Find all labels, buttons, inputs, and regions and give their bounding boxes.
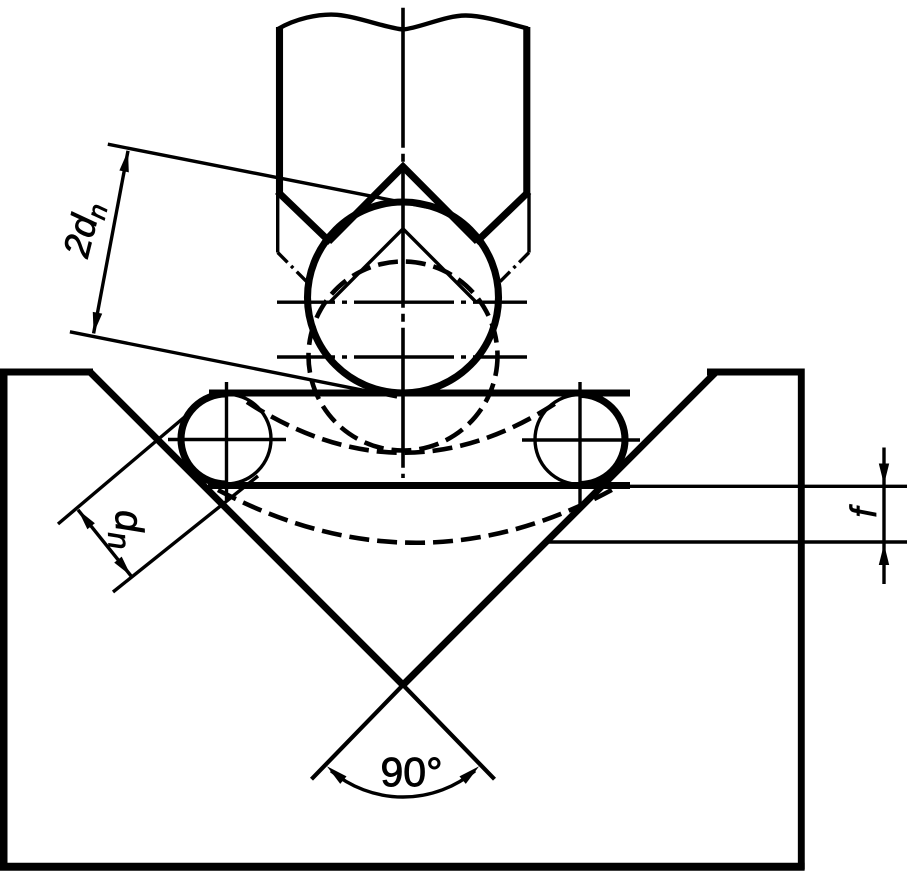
punch left hidden side xyxy=(276,194,279,253)
former lower position xyxy=(309,262,498,451)
bent specimen top surface xyxy=(247,402,556,453)
dimension dn upper arrowhead xyxy=(74,507,95,529)
punch body left side xyxy=(276,27,283,194)
angle dimension arc xyxy=(331,771,475,797)
right roller body xyxy=(535,395,625,485)
dimension 2dn upper arrowhead xyxy=(119,150,132,172)
dimension dn lower extension line xyxy=(113,476,258,592)
dimension f upper arrowhead xyxy=(879,464,889,485)
dimension f lower extension line xyxy=(546,540,907,543)
punch right hidden chamfer xyxy=(499,253,529,284)
former upper position xyxy=(308,202,499,393)
left roller horizontal centerline xyxy=(168,438,286,441)
left roller vertical centerline xyxy=(225,382,228,500)
dimension 2dn upper extension line xyxy=(108,144,438,209)
punch V-groove near edge xyxy=(330,229,476,302)
V-block top left edge xyxy=(0,368,93,375)
bent specimen bottom surface xyxy=(218,487,617,543)
punch V-groove far edge xyxy=(329,167,478,242)
V-block right side xyxy=(798,369,805,870)
svg-text:dn: dn xyxy=(101,509,151,550)
punch left hidden chamfer xyxy=(278,253,308,284)
left roller outer arc xyxy=(181,394,226,484)
svg-text:90°: 90° xyxy=(380,749,442,795)
dimension 2dn lower arrowhead xyxy=(89,312,102,334)
punch left chamfer xyxy=(278,192,331,243)
right roller vertical centerline xyxy=(578,382,581,505)
dimension f line xyxy=(882,448,885,585)
former upper axis xyxy=(277,301,527,304)
svg-text:f: f xyxy=(843,504,884,518)
dimension dn line xyxy=(78,510,131,576)
angle arc right arrowhead xyxy=(459,763,482,784)
dimension 2dn line xyxy=(94,151,128,334)
dimension f upper extension line xyxy=(630,485,907,488)
specimen bottom surface xyxy=(208,482,630,489)
V-groove right flank xyxy=(403,372,717,686)
dimension dn upper extension line xyxy=(58,407,197,525)
punch right hidden side xyxy=(527,194,530,253)
V-groove left flank extension xyxy=(403,685,495,779)
right roller outer arc xyxy=(580,395,625,485)
former lower axis xyxy=(277,355,527,358)
punch body right side xyxy=(523,27,530,194)
dimension f lower arrowhead xyxy=(879,544,889,565)
dimension 2dn lower extension line xyxy=(70,332,397,397)
center axis xyxy=(401,8,405,478)
right roller horizontal centerline xyxy=(522,438,640,441)
specimen top surface xyxy=(209,389,630,396)
V-block top right edge xyxy=(707,368,805,375)
left roller body xyxy=(181,394,271,484)
svg-text:2dn: 2dn xyxy=(55,197,113,263)
punch top break line xyxy=(278,15,528,30)
V-block left side xyxy=(0,369,8,870)
V-block bottom edge xyxy=(0,863,805,871)
punch right chamfer xyxy=(476,192,529,243)
angle arc left arrowhead xyxy=(324,763,347,784)
V-groove right flank extension xyxy=(312,685,404,779)
V-groove left flank xyxy=(90,372,404,686)
dimension dn lower arrowhead xyxy=(114,557,135,579)
